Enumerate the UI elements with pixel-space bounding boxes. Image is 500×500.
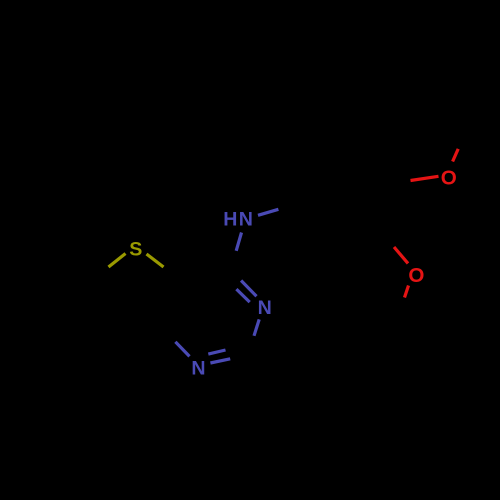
wire N1-C7a half-bond <box>175 342 189 357</box>
svg-text:O: O <box>441 166 457 189</box>
wire C2=N1 inner double-bond line half <box>208 350 225 354</box>
wire O(top)-CH3 half-bond <box>453 149 459 162</box>
wire HN-CH2 half-bond <box>258 209 278 215</box>
wire O(top)-C4aryl half-bond <box>411 176 439 180</box>
svg-text:O: O <box>408 264 424 287</box>
svg-text:N: N <box>191 358 205 380</box>
svg-text:N: N <box>239 209 253 231</box>
wire O(bottom)-C3aryl half-bond <box>394 247 408 263</box>
svg-text:S: S <box>129 239 142 261</box>
wire C4=N3 inner double-bond line half <box>236 289 249 302</box>
wire N3-C2 half-bond <box>254 319 259 335</box>
wire O(bottom)-CH3 half-bond <box>405 286 409 298</box>
wire S-C7a thiophene right half-bond <box>147 254 164 267</box>
wire C4=N3 main line half <box>241 281 256 297</box>
wire C2=N1 main line half <box>210 359 230 363</box>
svg-text:N: N <box>258 297 272 319</box>
wire HN-C4 half-bond <box>236 233 241 251</box>
svg-text:H: H <box>223 209 237 231</box>
wire S-C2 thiophene left half-bond <box>109 254 126 268</box>
